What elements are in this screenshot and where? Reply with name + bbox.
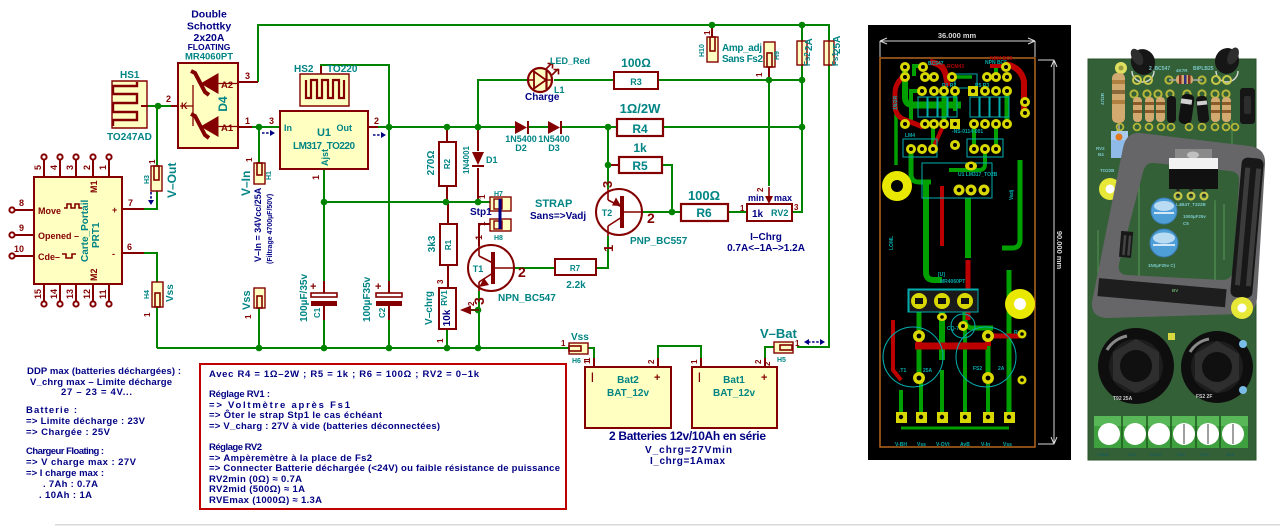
svg-text:BV: BV: [1172, 288, 1178, 293]
svg-text:1N0µF25v C): 1N0µF25v C): [1148, 263, 1176, 268]
connector H4 Vss: [143, 282, 176, 317]
svg-text:36.000 mm: 36.000 mm: [938, 31, 977, 40]
wire R2 bottom lead: [446, 186, 448, 202]
note red box réglage: [200, 364, 566, 509]
svg-text:In: In: [284, 123, 292, 133]
svg-text:1000µF25v: 1000µF25v: [1183, 214, 1206, 219]
wire HS2 pin to Out node: [321, 65, 389, 127]
svg-text:I_chrg=1Amax: I_chrg=1Amax: [650, 456, 725, 467]
svg-text:0.7A<–1A–>1.2A: 0.7A<–1A–>1.2A: [727, 243, 805, 254]
svg-text:A2: A2: [221, 80, 233, 91]
svg-text:3: 3: [471, 297, 487, 305]
3d terminal labels: [1097, 452, 1235, 457]
svg-text:Charge: Charge: [525, 92, 560, 103]
svg-text:DDP max (batteries déchargées): DDP max (batteries déchargées) :: [27, 366, 181, 377]
svg-text:RV1: RV1: [440, 290, 449, 306]
pcb green traces: [896, 66, 1020, 428]
3d trimmer RV2: [1096, 131, 1128, 158]
svg-text:=> Connecter Batterie déchargé: => Connecter Batterie déchargée (<24V) o…: [209, 463, 560, 474]
svg-text:V–Out: V–Out: [165, 163, 179, 198]
wire R3 right to bus: [658, 79, 802, 81]
svg-text:Double: Double: [191, 9, 227, 21]
svg-text:2: 2: [166, 94, 171, 104]
pcb dimension vertical 90mm: [1038, 60, 1057, 444]
3d regulator TO220: [1169, 149, 1218, 207]
svg-text:PRT1: PRT1: [91, 222, 102, 248]
svg-text:+: +: [654, 372, 660, 384]
svg-text:V-BH: V-BH: [895, 442, 907, 448]
wire PRT1 pin6 to H4: [144, 253, 157, 282]
svg-text:1: 1: [755, 72, 764, 77]
3d terminal block: [1094, 416, 1248, 448]
pcb big hole pads: [882, 171, 1035, 319]
svg-text:Vss: Vss: [1128, 452, 1137, 457]
svg-text:FS2 2F: FS2 2F: [1196, 394, 1212, 400]
wire H4 to ground rail: [156, 306, 158, 348]
svg-text:15: 15: [33, 289, 43, 299]
svg-text:1: 1: [244, 314, 253, 319]
note batteries caption: [609, 429, 766, 467]
potentiometer RV2: [727, 187, 805, 254]
wire D4.A2 stub: [238, 81, 258, 83]
wire C2 to ground: [388, 320, 390, 348]
svg-text:Réglage RV1 :: Réglage RV1 :: [209, 389, 270, 400]
svg-text:+: +: [112, 205, 117, 215]
wire PRT1 pin7 stub: [122, 208, 144, 210]
svg-text:5: 5: [33, 165, 43, 170]
svg-text:RO-RCM43: RO-RCM43: [938, 64, 964, 70]
svg-text:Batterie :: Batterie :: [26, 405, 77, 416]
3d small parts between fuses: [1168, 333, 1175, 340]
svg-text:R5: R5: [632, 159, 648, 173]
svg-text:Vss: Vss: [241, 290, 253, 310]
svg-text:I–Chrg: I–Chrg: [750, 232, 782, 243]
svg-text:T92 25A: T92 25A: [1113, 396, 1133, 402]
wire C1 lead top: [323, 281, 325, 293]
svg-text:STRAP: STRAP: [535, 198, 572, 210]
svg-text:100Ω: 100Ω: [688, 188, 720, 203]
wire junction HS1 to H3 V-Out: [156, 106, 158, 166]
wire C1 lead bottom: [323, 306, 325, 320]
connector H5 V-Bat: [760, 326, 825, 366]
svg-text:C5: C5: [1183, 221, 1189, 226]
transistor T2 PNP_BC557: [596, 181, 688, 252]
wire ground rail: [157, 347, 569, 349]
connector H9: [755, 42, 781, 77]
wire Bat2+ to Bat1-: [658, 346, 701, 367]
svg-text:TO22B: TO22B: [1100, 168, 1115, 173]
svg-text:C1: C1: [313, 307, 322, 318]
wire Bat1+ to H5: [765, 347, 774, 367]
svg-text:C2: C2: [378, 307, 387, 318]
svg-text:NEM BC5: NEM BC5: [990, 56, 1013, 62]
svg-text:RV2mid (500Ω) ≈ 1A: RV2mid (500Ω) ≈ 1A: [209, 484, 305, 495]
svg-text:LM317_TO220: LM317_TO220: [293, 141, 355, 152]
svg-text:V–In: V–In: [239, 171, 253, 196]
wire H2 to ground: [258, 307, 260, 348]
svg-text:BAT_12v: BAT_12v: [713, 388, 755, 399]
svg-text:T1: T1: [473, 264, 484, 274]
wire D4.K pin stub: [171, 105, 179, 107]
svg-text:H9: H9: [774, 51, 781, 60]
resistor R1: [427, 224, 457, 265]
svg-text:=> I charge max :: => I charge max :: [26, 468, 104, 479]
transistor T1 NPN_BC547: [468, 235, 556, 305]
svg-text:12: 12: [82, 289, 92, 299]
resistor R5: [619, 141, 662, 173]
svg-text:Vss: Vss: [917, 442, 926, 448]
wire top bus D4.A2 to Fs1: [258, 25, 829, 82]
wire R1 to RV1: [447, 265, 449, 288]
svg-text:1N4001: 1N4001: [462, 145, 471, 174]
wire T1 base to R7: [514, 267, 555, 269]
3d capacitor C blue 1: [1151, 198, 1177, 224]
svg-text:2: 2: [754, 359, 763, 364]
3d large resistor left: [1100, 62, 1127, 137]
svg-text:100Ω: 100Ω: [621, 56, 651, 70]
svg-text:2 Batteries 12v/10Ah en série: 2 Batteries 12v/10Ah en série: [609, 429, 766, 443]
svg-text:H6: H6: [572, 358, 581, 365]
svg-text:Sans Fs2: Sans Fs2: [722, 54, 763, 65]
3d fuse holder left: [1098, 328, 1174, 404]
wire Fs1 down to V-Bat: [797, 65, 829, 347]
svg-text:7: 7: [128, 198, 133, 208]
svg-text:+: +: [310, 281, 316, 293]
wire LED to R3: [554, 79, 614, 81]
svg-text:RVEmax (1000Ω) ≈ 1.3A: RVEmax (1000Ω) ≈ 1.3A: [209, 495, 322, 506]
svg-text:V-OVt: V-OVt: [936, 442, 950, 448]
svg-text:Amp_adj: Amp_adj: [722, 43, 762, 54]
svg-text:25A: 25A: [832, 36, 843, 54]
svg-text:2: 2: [518, 264, 526, 280]
wire LED branch riser: [478, 80, 529, 127]
svg-text:HS2: HS2: [294, 64, 314, 75]
svg-text:Vss: Vss: [1003, 442, 1012, 448]
svg-text:V-Out: V-Out: [1149, 452, 1162, 457]
svg-text:1: 1: [148, 159, 157, 164]
svg-text:1: 1: [474, 235, 484, 240]
svg-text:T2: T2: [602, 208, 613, 218]
svg-text:1Ω/2W: 1Ω/2W: [620, 101, 661, 116]
connector H2 Vss: [241, 288, 265, 319]
svg-text:3k3: 3k3: [427, 235, 438, 252]
svg-text:D4: D4: [216, 96, 230, 112]
fuse Fs1: [824, 36, 843, 66]
svg-text:10: 10: [14, 244, 24, 254]
3d fuse holder right: [1181, 331, 1253, 403]
svg-text:FLOATING: FLOATING: [188, 42, 231, 52]
wire junction to H1 V-In: [258, 127, 260, 163]
svg-text:LOML: LOML: [889, 236, 895, 250]
pcb mid pads: [913, 321, 1027, 385]
wire R7 to T2: [596, 236, 608, 268]
wire U1.Out row to D2: [378, 126, 516, 128]
svg-text:Réglage RV2: Réglage RV2: [209, 442, 262, 453]
svg-text:13: 13: [65, 289, 75, 299]
svg-text:3: 3: [600, 181, 615, 188]
svg-text:14: 14: [49, 289, 59, 299]
svg-text:Sans=>Vadj: Sans=>Vadj: [530, 211, 586, 222]
fuse Fs2: [797, 38, 815, 66]
svg-text:2A: 2A: [998, 366, 1005, 372]
svg-text:Opened –: Opened –: [38, 231, 79, 241]
svg-text:RV2: RV2: [771, 208, 788, 218]
svg-text:100µF35v: 100µF35v: [362, 276, 373, 322]
wire RV1 wiper to T1 emitter node: [463, 309, 479, 311]
svg-text:3: 3: [245, 71, 250, 81]
svg-text:1: 1: [795, 339, 800, 348]
svg-text:4K7R: 4K7R: [1176, 68, 1188, 73]
svg-text:=> Limite décharge : 23V: => Limite décharge : 23V: [26, 416, 146, 427]
svg-text:4: 4: [49, 165, 59, 170]
svg-text:Out: Out: [337, 123, 353, 133]
pcb red silk texts: [938, 56, 1013, 70]
svg-text:2: 2: [374, 116, 379, 126]
svg-text:1k: 1k: [752, 209, 764, 220]
3d pcb board: [1088, 59, 1256, 460]
svg-text:D1: D1: [486, 155, 498, 165]
3d transistor TO92 left: [1127, 46, 1158, 84]
pcb pads top rows: [900, 62, 1030, 196]
svg-text:LED_Red: LED_Red: [550, 56, 590, 66]
connector H3 V-Out: [144, 159, 179, 205]
svg-text:[U]: [U]: [938, 272, 945, 278]
battery Bat2: [583, 358, 671, 428]
LED L1: [525, 56, 590, 103]
wire D3 to R4: [562, 126, 617, 128]
svg-text:A-In: A-In: [1200, 452, 1209, 457]
svg-text:1: 1: [583, 359, 592, 364]
svg-text:1: 1: [478, 221, 487, 226]
wire D4.A1 stub: [238, 126, 252, 128]
svg-text:2: 2: [756, 187, 765, 192]
svg-text:A1: A1: [221, 123, 234, 134]
svg-text:D3: D3: [548, 143, 560, 153]
wire C2 lead bottom: [388, 306, 390, 320]
heatsink HS1: [107, 70, 152, 143]
svg-text:Schottky: Schottky: [187, 21, 232, 33]
svg-text:2: 2: [647, 210, 655, 226]
3d axial resistor: [1169, 68, 1202, 84]
wire PRT1 pin7 to H3: [144, 191, 157, 209]
wire HS1 to D4.K: [148, 105, 171, 107]
wire R5 left stub: [608, 164, 619, 166]
svg-text:2.2k: 2.2k: [566, 280, 586, 291]
wire H10 pin up: [711, 25, 713, 37]
battery Bat1: [690, 358, 777, 428]
svg-text:M1: M1: [89, 180, 99, 193]
wire R4 right to vertical bus: [663, 126, 802, 128]
svg-text:Fs2: Fs2: [803, 52, 812, 66]
svg-text:Vadj: Vadj: [1009, 189, 1015, 200]
wire H6 to Bat2: [588, 348, 594, 367]
svg-text:2: 2: [82, 165, 92, 170]
resistor R6: [681, 188, 728, 221]
svg-text:V–chrg: V–chrg: [424, 291, 435, 325]
svg-text:R1: R1: [444, 239, 453, 250]
3d transistor TO92 right: [1212, 45, 1242, 84]
svg-text:U1: U1: [317, 127, 331, 139]
svg-text:RV2: RV2: [1096, 146, 1105, 151]
svg-text:R4: R4: [632, 122, 648, 136]
3d pad row upper: [1130, 76, 1229, 97]
svg-text:TO247AD: TO247AD: [107, 132, 152, 143]
3d heatsink frame: [1092, 133, 1265, 318]
svg-text:H1: H1: [266, 171, 273, 180]
svg-text:R6: R6: [696, 206, 712, 220]
svg-text:|: |: [591, 372, 594, 383]
pcb silkscreen texts: [889, 60, 1021, 448]
svg-text:1: 1: [703, 30, 712, 35]
3d board trace shading: [1098, 120, 1240, 300]
svg-text:Vss: Vss: [1177, 452, 1186, 457]
svg-text:V–In = 34Vcc/25A: V–In = 34Vcc/25A: [253, 187, 263, 262]
svg-text:H10: H10: [699, 44, 706, 57]
svg-text:H3: H3: [144, 175, 151, 184]
strap Stp1 H7 H8: [470, 191, 586, 242]
svg-text:NPN_BC547: NPN_BC547: [498, 293, 556, 304]
wire adj row: [324, 201, 490, 203]
svg-text:Carte_Portail: Carte_Portail: [80, 200, 91, 262]
wire R6 to RV2: [728, 211, 747, 213]
wire D4.A1 to U1.In: [252, 126, 280, 128]
svg-text:1: 1: [98, 165, 108, 170]
svg-text:100µF/35v: 100µF/35v: [299, 274, 310, 322]
wire H8 to T1 collector: [479, 224, 490, 246]
svg-text:3: 3: [436, 279, 445, 284]
wire C2 lead top: [388, 281, 390, 293]
svg-text:TO220: TO220: [327, 64, 358, 75]
svg-text:Cde–: Cde–: [38, 252, 60, 262]
svg-text:=> V_charg : 27V à vide (batte: => V_charg : 27V à vide (batteries décon…: [209, 421, 440, 432]
svg-text:M2: M2: [89, 268, 99, 281]
svg-text:90.000 mm: 90.000 mm: [1055, 231, 1064, 270]
svg-text:11: 11: [98, 289, 108, 299]
pcb silkscreen shapes: [883, 74, 1016, 387]
svg-text:. 7Ah : 0.7A: . 7Ah : 0.7A: [43, 479, 98, 490]
wire PRT1 pin6 stub: [122, 252, 144, 254]
svg-text:+: +: [375, 281, 381, 293]
diode D4 double schottky: [166, 9, 274, 149]
svg-text:FS2: FS2: [973, 366, 982, 372]
svg-text:3: 3: [794, 203, 799, 212]
connector H1 V-In: [239, 157, 274, 264]
svg-text:1: 1: [601, 245, 616, 252]
svg-text:1: 1: [143, 312, 152, 317]
wire D2-D3 link: [529, 126, 549, 128]
svg-text:|: |: [698, 372, 701, 383]
svg-text:H4: H4: [144, 290, 151, 299]
svg-text:=> Ôter le strap Stp1 le cas é: => Ôter le strap Stp1 le cas échéant: [209, 409, 383, 421]
svg-text:47/2R: 47/2R: [1100, 92, 1105, 105]
3d pad row lower: [1117, 124, 1239, 131]
svg-text:MR4060PT: MR4060PT: [185, 52, 233, 63]
connector PRT1 Carte_Portail: [9, 154, 133, 306]
svg-text:27 – 23 = 4V...: 27 – 23 = 4V...: [61, 387, 132, 398]
svg-text:Vss: Vss: [571, 332, 589, 343]
wire C1 to ground: [323, 320, 325, 348]
pcb board outline: [880, 58, 1035, 447]
svg-text:=> Chargée : 25V: => Chargée : 25V: [26, 427, 111, 438]
svg-text:Stp1: Stp1: [470, 207, 492, 218]
svg-text:10k: 10k: [442, 309, 453, 326]
pcb red traces: [893, 62, 1024, 380]
3d mount hole left: [1099, 168, 1121, 200]
svg-text:. 10Ah : 1A: . 10Ah : 1A: [39, 490, 92, 501]
svg-text:LM4: LM4: [905, 133, 915, 139]
svg-text:D2: D2: [515, 143, 527, 153]
svg-text:R7: R7: [570, 264, 581, 273]
wire RV2 wiper riser: [768, 80, 770, 186]
wire U1.Ajst down: [323, 169, 325, 281]
svg-text:R2: R2: [443, 158, 452, 169]
svg-text:+: +: [761, 372, 767, 384]
connector H10 Amp_adj: [699, 30, 763, 65]
svg-text:Move: Move: [38, 206, 61, 216]
wire T1 emitter to ground: [478, 291, 480, 348]
pcb layout panel background: [868, 25, 1071, 460]
wire T2 base to R6 node: [643, 211, 681, 213]
svg-text:BAT_12v: BAT_12v: [607, 388, 649, 399]
wire RV1 to ground: [446, 329, 448, 348]
diode D1 1N4001: [462, 145, 498, 174]
wire Out node down to C2: [388, 127, 390, 281]
svg-text:V-In: V-In: [981, 442, 990, 448]
wire R5 right to R6 node: [662, 165, 672, 212]
svg-text:1: 1: [690, 359, 699, 364]
svg-text:1N/2R: 1N/2R: [893, 95, 899, 110]
svg-text:6: 6: [127, 242, 132, 252]
3d black box right: [1240, 88, 1255, 124]
connector H6 Vss: [561, 332, 592, 365]
3d transistor TO92 silk: [1132, 71, 1238, 82]
3d capacitor C blue 2: [1150, 229, 1178, 257]
svg-text:Bat2: Bat2: [617, 375, 639, 386]
capacitor C1: [299, 274, 337, 322]
3d inner board details: [1121, 175, 1224, 300]
svg-text:Bat1: Bat1: [723, 375, 745, 386]
svg-text:1k: 1k: [633, 141, 647, 155]
svg-text:1: 1: [478, 194, 487, 199]
3d mount hole right: [1231, 297, 1253, 319]
svg-text:HS1: HS1: [120, 70, 140, 81]
resistor R2: [426, 142, 456, 186]
svg-text:1: 1: [245, 116, 250, 126]
svg-text:-: -: [112, 249, 115, 259]
wire D1 bottom lead: [477, 168, 479, 202]
svg-text:PNP_BC557: PNP_BC557: [630, 236, 688, 247]
resistor R3: [614, 56, 658, 89]
3d diodes black row: [1167, 93, 1209, 125]
svg-text:25A: 25A: [923, 368, 933, 374]
svg-text:270Ω: 270Ω: [426, 151, 437, 176]
svg-text:2: 2: [647, 359, 656, 364]
svg-text:8: 8: [19, 198, 24, 208]
svg-text:AvB: AvB: [960, 442, 970, 448]
svg-text:-NS-0114-001: -NS-0114-001: [952, 129, 983, 135]
svg-text:U1 LM317_TO2B: U1 LM317_TO2B: [958, 172, 998, 178]
pcb dimension horizontal 36mm: [880, 38, 1035, 57]
note DDP max block: [26, 366, 181, 501]
svg-text:L4B4T_T322B: L4B4T_T322B: [1176, 202, 1207, 207]
wire U1.Out stub: [368, 126, 378, 128]
svg-text:V-Bat: V-Bat: [1097, 452, 1109, 457]
diode D2 1N5400: [505, 121, 537, 153]
3d small resistors row: [1133, 97, 1231, 122]
svg-text:max: max: [774, 193, 792, 203]
svg-text:1: 1: [311, 175, 321, 180]
svg-text:H7: H7: [494, 191, 503, 198]
